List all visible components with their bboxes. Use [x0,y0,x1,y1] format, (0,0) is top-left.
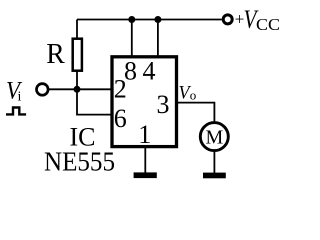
svg-text:M: M [206,126,224,148]
svg-text:3: 3 [157,90,170,119]
svg-text:i: i [18,90,22,105]
svg-text:o: o [190,87,197,102]
svg-text:NE555: NE555 [44,147,115,177]
svg-text:1: 1 [138,120,151,149]
svg-text:R: R [46,38,65,70]
svg-text:CC: CC [256,15,280,34]
svg-text:2: 2 [114,75,127,104]
svg-text:4: 4 [143,57,156,86]
svg-text:6: 6 [114,104,127,133]
